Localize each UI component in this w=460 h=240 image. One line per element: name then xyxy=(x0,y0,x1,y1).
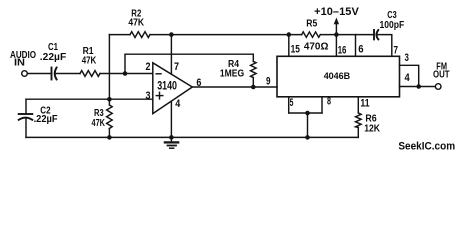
label C3 value xyxy=(380,9,405,31)
wire C2 top xyxy=(25,99,27,114)
node junction R3 and ground rail xyxy=(107,135,112,140)
wire pins 5-8 to ground rail xyxy=(307,113,309,137)
ground symbol xyxy=(165,137,178,148)
wire op-amp pin7 to rail xyxy=(170,35,172,74)
resistor R3 xyxy=(107,105,113,129)
svg-text:6: 6 xyxy=(196,77,201,89)
svg-text:2: 2 xyxy=(146,61,151,73)
node junction rail and pin15 xyxy=(287,32,292,37)
svg-text:.22µF: .22µF xyxy=(40,51,67,63)
node junction pins 5-8 link xyxy=(305,111,310,116)
wire top supply rail left segment xyxy=(109,34,130,36)
wire bias node to op-amp pin3 xyxy=(26,98,153,100)
op-amp U1 triangle 3140 xyxy=(153,63,193,114)
wire pin5 stub xyxy=(288,97,290,113)
svg-text:9: 9 xyxy=(266,76,271,88)
label R6 value xyxy=(364,112,380,134)
wire top rail R5 to C3 xyxy=(320,34,374,36)
svg-text:47K: 47K xyxy=(92,117,106,129)
wire C2 bottom xyxy=(25,118,27,137)
label R1 value xyxy=(82,45,97,66)
node junction rail and op-amp V+ xyxy=(169,32,174,37)
terminal FM OUT xyxy=(435,84,441,90)
wire op-amp pin4 to ground xyxy=(170,101,172,137)
svg-text:4046B: 4046B xyxy=(324,71,351,81)
wire feedback loop xyxy=(125,54,253,73)
svg-text:6: 6 xyxy=(358,44,363,56)
svg-text:11: 11 xyxy=(360,98,369,110)
wire R4 to output xyxy=(252,78,254,87)
terminal AUDIO IN xyxy=(22,71,28,77)
svg-text:SeekIC.com: SeekIC.com xyxy=(398,140,455,152)
capacitor C3 xyxy=(374,30,378,39)
resistor R6 xyxy=(356,113,362,128)
wire R1 to op-amp pin2 xyxy=(100,73,153,75)
svg-text:12K: 12K xyxy=(364,123,380,135)
supply arrow for +10-15V xyxy=(334,18,339,35)
node junction bias divider and pin3 xyxy=(107,97,112,102)
svg-text:3140: 3140 xyxy=(157,79,177,93)
wire bottom ground rail xyxy=(26,136,358,138)
node junction input and feedback xyxy=(123,71,128,76)
svg-text:.22µF: .22µF xyxy=(34,113,59,125)
wire audio in to C1 xyxy=(27,73,51,75)
svg-text:1MEG: 1MEG xyxy=(220,67,244,79)
wire pin15 stub xyxy=(288,35,290,57)
wire pin4 stub to FM out xyxy=(400,86,436,88)
label R3 value xyxy=(92,107,106,129)
svg-text:5: 5 xyxy=(290,97,294,109)
wire top rail C3 to pin7 corner xyxy=(377,35,392,57)
wire pin11 stub xyxy=(357,97,359,113)
wire R3 to ground rail xyxy=(108,129,110,138)
svg-text:4: 4 xyxy=(405,72,411,84)
wire C1 to R1 xyxy=(56,73,80,75)
svg-text:47K: 47K xyxy=(82,55,97,67)
IC U2 4046B box xyxy=(277,56,400,97)
label R4 value xyxy=(220,58,244,80)
resistor R1 xyxy=(80,71,100,77)
wire R6 to ground rail xyxy=(357,128,359,138)
op-amp minus sign xyxy=(156,73,161,75)
svg-text:7: 7 xyxy=(394,44,399,56)
node junction pin3 and pin4 xyxy=(416,84,421,89)
capacitor C2 xyxy=(19,114,33,120)
resistor R5 xyxy=(302,32,321,37)
wire pin5 to pin8 bottom link xyxy=(289,112,322,114)
svg-text:16: 16 xyxy=(338,44,347,56)
label R5 value xyxy=(304,17,329,52)
wire pin8 stub xyxy=(321,97,323,113)
svg-text:7: 7 xyxy=(174,61,179,73)
label AUDIO IN xyxy=(10,49,36,69)
node junction 4046B pins 5-8 and ground rail xyxy=(305,135,310,140)
node junction R4 and output xyxy=(251,85,256,90)
wire bias divider vertical xyxy=(108,35,110,105)
svg-text:IN: IN xyxy=(14,57,25,69)
node junction rail supply arrow pin16 xyxy=(334,32,339,37)
label R2 value xyxy=(128,8,144,29)
svg-text:47K: 47K xyxy=(128,17,144,29)
svg-text:R5: R5 xyxy=(306,17,317,29)
label C1 value xyxy=(40,41,67,63)
svg-text:4: 4 xyxy=(175,98,181,110)
svg-text:100pF: 100pF xyxy=(380,19,405,31)
wire pin6 stub xyxy=(355,35,357,57)
resistor R4 xyxy=(251,61,257,77)
label C2 value xyxy=(34,104,59,125)
svg-text:+10–15V: +10–15V xyxy=(314,6,359,18)
resistor R2 xyxy=(130,32,150,38)
svg-text:3: 3 xyxy=(146,90,151,102)
wire pin3 stub right xyxy=(400,65,419,86)
node junction ground symbol xyxy=(169,135,174,140)
capacitor C1 xyxy=(52,68,57,80)
svg-text:470Ω: 470Ω xyxy=(304,40,329,52)
svg-text:8: 8 xyxy=(327,96,331,108)
label FM OUT xyxy=(433,60,450,80)
svg-text:OUT: OUT xyxy=(433,69,450,81)
op-amp plus sign xyxy=(156,92,163,99)
wire pin16 stub xyxy=(335,35,337,57)
wire top rail R2 to R5 xyxy=(150,34,302,36)
svg-text:3: 3 xyxy=(405,52,409,64)
svg-text:15: 15 xyxy=(291,44,300,56)
wire op-amp output to 4046B pin9 xyxy=(192,86,277,88)
